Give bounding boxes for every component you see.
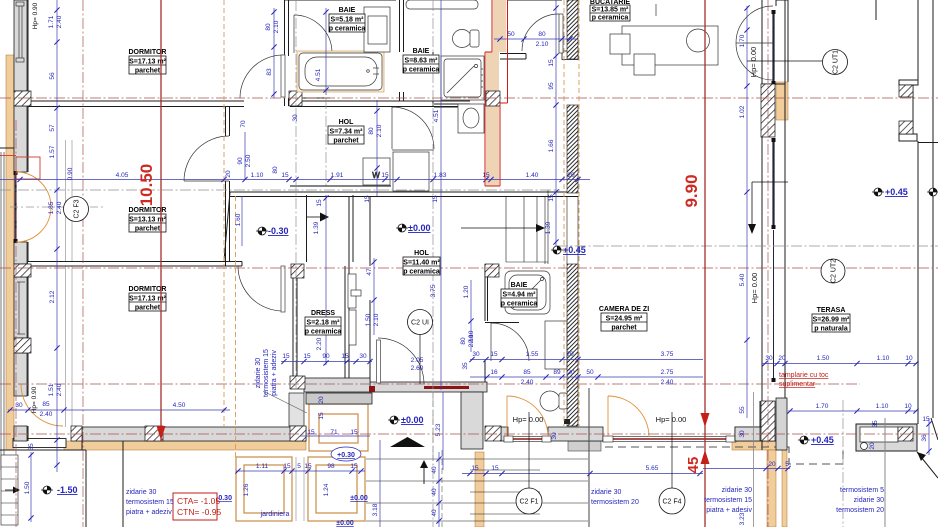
level marker +0.45 bottom right <box>798 435 834 445</box>
svg-text:2.05: 2.05 <box>411 357 424 364</box>
svg-text:piatra + adeziv: piatra + adeziv <box>126 509 172 516</box>
svg-text:4.51: 4.51 <box>315 68 322 81</box>
interior door arc bed1 <box>240 55 285 98</box>
toilet baie4.94 <box>540 391 567 411</box>
svg-text:4.50: 4.50 <box>173 402 186 409</box>
dim camera y377 <box>470 369 703 386</box>
svg-text:tamplarie cu toc: tamplarie cu toc <box>779 372 829 379</box>
svg-text:1.02: 1.02 <box>739 105 746 118</box>
dim wall right y468 <box>703 461 791 471</box>
exterior stair arrow bottom-left <box>5 487 20 494</box>
gray plinth under wall <box>568 441 601 451</box>
left wall window glazing bed3 <box>17 282 25 334</box>
svg-text:±0.00: ±0.00 <box>350 495 368 502</box>
bathtub baie5.18 <box>299 53 382 90</box>
bottom wall window 2 frame <box>603 436 736 442</box>
red wall tan fill lower <box>486 52 499 186</box>
level +0.30 planter <box>331 447 361 461</box>
left wall window glazing bed1 <box>16 2 24 62</box>
svg-text:C2 UT2: C2 UT2 <box>831 259 838 283</box>
svg-text:2.40: 2.40 <box>40 411 53 418</box>
planter jardiniera middle <box>308 457 365 521</box>
wall bed2 east vertical <box>226 106 230 266</box>
svg-text:20: 20 <box>768 461 776 468</box>
gray line corner <box>753 392 755 527</box>
svg-text:-1.50: -1.50 <box>57 485 78 495</box>
bottom-right wall corner L <box>735 401 785 450</box>
svg-text:p ceramica: p ceramica <box>501 301 538 308</box>
terrace steps up arrow <box>420 460 428 484</box>
svg-text:1.70: 1.70 <box>739 34 746 47</box>
svg-text:35: 35 <box>28 443 35 451</box>
hatch block dress south <box>290 376 305 389</box>
svg-text:BAIE: BAIE <box>339 7 356 14</box>
svg-text:+0.45: +0.45 <box>885 187 908 197</box>
dim hol x245 <box>237 132 279 179</box>
svg-text:1.66: 1.66 <box>548 139 555 152</box>
svg-text:15: 15 <box>281 172 289 179</box>
exterior door bed3 <box>21 384 63 426</box>
svg-text:30: 30 <box>15 402 23 409</box>
room label HOL 11.40 <box>403 250 440 276</box>
hatch block kitchen-east column <box>761 84 775 137</box>
hatch block camera west <box>485 426 501 441</box>
courtyard dashed axis <box>432 392 434 465</box>
svg-text:termosistem 20: termosistem 20 <box>591 499 639 506</box>
level marker -1.50 <box>41 485 78 495</box>
svg-text:1.57: 1.57 <box>49 145 56 158</box>
dim camera south y473 <box>462 465 703 476</box>
svg-text:2.10: 2.10 <box>468 330 475 343</box>
interior door arc baie5.18 <box>294 15 332 53</box>
svg-text:1.50: 1.50 <box>24 481 31 494</box>
toilet baie8.63 <box>453 30 480 48</box>
washing machine baie5.18 <box>364 7 390 52</box>
svg-text:15: 15 <box>316 199 323 207</box>
dim vertical x747 <box>739 5 750 525</box>
callout circle C2 F3 <box>64 197 89 222</box>
svg-text:2.40: 2.40 <box>56 201 63 214</box>
wall insulation strip left <box>6 55 14 450</box>
svg-text:3.75: 3.75 <box>430 284 437 297</box>
corridor wall east of red wall <box>500 54 526 60</box>
svg-text:98: 98 <box>327 463 335 470</box>
svg-text:30: 30 <box>551 432 558 440</box>
hatch block bottom-left b <box>145 426 163 441</box>
svg-text:70: 70 <box>240 120 247 128</box>
svg-text:20: 20 <box>318 396 325 404</box>
red arrow 45 <box>701 413 710 427</box>
planter jardiniera upper <box>309 404 368 451</box>
svg-text:56: 56 <box>49 72 56 80</box>
dim hol x374 <box>365 258 380 335</box>
svg-text:piatra + adeziv: piatra + adeziv <box>271 350 278 396</box>
exterior window arc 1 <box>507 396 548 437</box>
svg-text:5: 5 <box>785 461 789 468</box>
dim left 1.50 bottom <box>24 443 35 522</box>
svg-text:2.12: 2.12 <box>49 290 56 303</box>
glazing line east wall lower <box>772 138 776 382</box>
dim tub line x326 <box>323 8 328 95</box>
red wall tan fill upper <box>493 0 506 52</box>
wall bed1 east / baie5.18 west vertical <box>285 0 289 106</box>
terrace corner arrowhead <box>917 452 926 461</box>
svg-text:suplimentar: suplimentar <box>779 381 816 388</box>
svg-text:5.40: 5.40 <box>739 273 746 286</box>
svg-text:15: 15 <box>364 195 371 203</box>
dim vertical x441 <box>433 0 441 390</box>
shower baie8.63 <box>441 56 484 100</box>
svg-text:HOL: HOL <box>339 119 355 126</box>
svg-text:3.23: 3.23 <box>739 512 746 525</box>
axis F horizontal <box>0 433 938 435</box>
bathtub baie5.18 surround <box>297 51 384 92</box>
room label BAIE 4.94 <box>501 282 538 308</box>
svg-text:2.40: 2.40 <box>521 379 534 386</box>
red note tamplarie <box>779 372 829 388</box>
room label BUCATARIE <box>590 0 631 22</box>
callout circle C2 UT1 <box>747 50 848 75</box>
wall stub top right <box>875 0 877 20</box>
svg-text:parchet: parchet <box>135 305 161 312</box>
right wall step plates <box>899 80 918 141</box>
svg-text:1.60: 1.60 <box>235 213 242 226</box>
axis V7 vertical gray <box>842 400 844 527</box>
room label DORMITOR 17.13 <box>129 49 167 75</box>
note zidarie bottom-left <box>126 489 174 516</box>
wardrobe dress <box>348 274 361 345</box>
wall hol7.34 south / stairs north <box>224 192 580 261</box>
exterior french door bed2 leaf2 <box>16 207 51 242</box>
svg-text:1.50: 1.50 <box>817 355 830 362</box>
svg-text:Hp= 0.00: Hp= 0.00 <box>513 415 544 424</box>
svg-text:C2 F1: C2 F1 <box>519 499 538 506</box>
wall insulation strip bottom east <box>732 441 785 450</box>
gray line terrace <box>884 418 886 527</box>
stair treads flight B <box>506 190 548 264</box>
note zidarie rotated dress <box>255 349 278 397</box>
svg-text:2.10: 2.10 <box>536 41 549 48</box>
axis V3 vertical <box>295 0 297 389</box>
svg-text:1.55: 1.55 <box>526 351 539 358</box>
svg-text:95: 95 <box>548 82 555 90</box>
svg-text:2.40: 2.40 <box>661 379 674 386</box>
callout circle C2 UT2 <box>821 259 845 283</box>
hatch block terrace pillar <box>898 427 913 441</box>
svg-text:p ceramica: p ceramica <box>403 269 440 276</box>
dim door hol11 <box>411 357 469 372</box>
note zidarie bottom-center <box>591 489 639 506</box>
axis D horizontal <box>0 267 938 269</box>
svg-text:83: 83 <box>266 68 273 76</box>
insulation band wall segment 1 <box>567 0 578 59</box>
hatch block baie5.18 <box>289 91 302 106</box>
svg-text:Hp= 0.00: Hp= 0.00 <box>656 415 687 424</box>
svg-text:S=24.95 m²: S=24.95 m² <box>606 316 643 323</box>
svg-text:CAMERA DE ZI: CAMERA DE ZI <box>599 306 649 313</box>
bottom-left wall return vertical <box>0 427 123 527</box>
svg-text:C2 UI: C2 UI <box>411 320 429 327</box>
red arrow 45 up <box>701 450 710 464</box>
bottom wall window 1 frame <box>504 436 551 442</box>
svg-text:45: 45 <box>685 457 702 474</box>
svg-text:p ceramica: p ceramica <box>329 26 366 33</box>
level marker +0.45 camera <box>551 245 586 255</box>
red arrow 10.50 <box>157 426 166 440</box>
svg-text:1.24: 1.24 <box>323 483 330 496</box>
red wall line right upper <box>500 0 508 186</box>
svg-text:3.75: 3.75 <box>661 351 674 358</box>
svg-text:1.20: 1.20 <box>463 285 470 298</box>
cabinet hol wall <box>393 152 429 191</box>
svg-text:p ceramica: p ceramica <box>403 67 440 74</box>
svg-text:1.91: 1.91 <box>331 172 344 179</box>
dim steps x380 <box>372 440 380 527</box>
svg-text:4.51: 4.51 <box>433 109 440 122</box>
svg-text:30: 30 <box>765 355 773 362</box>
svg-text:36: 36 <box>921 434 928 442</box>
svg-text:71: 71 <box>330 429 338 436</box>
red wall line left upper <box>485 0 500 186</box>
axis C horizontal <box>557 245 938 247</box>
svg-text:40: 40 <box>431 466 438 474</box>
hatch block bottom-right corner <box>761 401 775 441</box>
svg-text:2.40: 2.40 <box>56 15 63 28</box>
svg-text:1.10: 1.10 <box>251 172 264 179</box>
callout circle C2 F4 <box>659 412 685 514</box>
hatch block right wall step lower <box>899 121 913 134</box>
hatch block red wall <box>486 91 500 106</box>
hatch block left wall B <box>14 264 31 277</box>
svg-text:50: 50 <box>586 369 594 376</box>
level marker +-0.00 hol <box>396 223 430 233</box>
svg-text:47: 47 <box>366 268 373 276</box>
dim vertical x556 <box>545 0 559 246</box>
dim vertical x57 <box>48 0 63 472</box>
svg-text:2.20: 2.20 <box>316 337 323 350</box>
svg-text:85: 85 <box>42 401 50 408</box>
column tan block kitchen-east <box>776 82 788 120</box>
svg-text:S=4.94 m²: S=4.94 m² <box>503 292 537 299</box>
svg-text:1.10: 1.10 <box>877 355 890 362</box>
svg-text:80: 80 <box>272 166 279 174</box>
courtyard pillar <box>461 392 483 449</box>
svg-text:15: 15 <box>548 59 555 67</box>
level marker -0.30 <box>256 226 289 236</box>
svg-text:C2 F3: C2 F3 <box>74 199 81 218</box>
wall insulation strip bottom-left vertical <box>475 452 484 527</box>
dim chain horizontal y179 <box>0 167 590 182</box>
door axis dashed bed2 <box>10 206 105 208</box>
axis A horizontal <box>0 97 938 99</box>
wall dress east vertical <box>345 196 349 378</box>
svg-text:1.26: 1.26 <box>243 483 250 496</box>
hatch block bottom middle <box>290 426 306 441</box>
svg-text:2.10: 2.10 <box>273 20 280 33</box>
svg-text:S=7.34 m²: S=7.34 m² <box>330 129 364 136</box>
svg-text:30: 30 <box>292 114 299 122</box>
svg-text:termosistem 15: termosistem 15 <box>126 499 174 506</box>
interior door corridor-kitchen <box>522 14 563 53</box>
callout circle C2 UI <box>408 310 433 385</box>
svg-text:9.90: 9.90 <box>682 174 701 207</box>
svg-text:BAIE: BAIE <box>511 282 528 289</box>
vanity baie8.63 <box>458 104 484 133</box>
svg-text:15: 15 <box>482 172 490 179</box>
room label BAIE 5.18 <box>329 7 366 33</box>
hol south sill line <box>290 185 391 187</box>
svg-text:15: 15 <box>318 412 325 420</box>
svg-text:15: 15 <box>341 353 349 360</box>
svg-text:1.70: 1.70 <box>816 403 829 410</box>
svg-text:15: 15 <box>350 463 358 470</box>
svg-text:10.50: 10.50 <box>137 164 156 207</box>
wall baie5.18 south <box>289 98 330 101</box>
dim steps x439 <box>431 452 442 527</box>
north arrow solid <box>390 437 425 447</box>
hatch block left wall A <box>14 91 31 106</box>
svg-text:p naturala: p naturala <box>814 326 848 333</box>
axis V2 vertical <box>82 0 84 527</box>
svg-text:89: 89 <box>553 369 561 376</box>
svg-text:Hp= 0.00: Hp= 0.00 <box>749 47 758 78</box>
red axis line 10.50 <box>160 0 162 441</box>
svg-text:16: 16 <box>490 369 498 376</box>
terrace pillar bench <box>856 424 917 451</box>
walkway lines between planters <box>296 457 304 521</box>
terrace dashed edge <box>605 447 843 464</box>
svg-text:Hp= 0.90: Hp= 0.90 <box>31 386 38 413</box>
svg-text:±0.00: ±0.00 <box>401 415 423 425</box>
dim pillar x929 <box>921 416 932 455</box>
svg-text:C2 F4: C2 F4 <box>662 499 681 506</box>
camera de zi west wall vertical <box>588 388 590 527</box>
svg-text:20: 20 <box>225 170 232 178</box>
svg-text:parchet: parchet <box>135 226 161 233</box>
gray wall piece <box>501 427 508 441</box>
dim hol x377 <box>368 100 383 196</box>
arrow vertical terasa wall <box>748 182 788 234</box>
svg-text:30: 30 <box>359 353 367 360</box>
axis V1 vertical <box>15 120 17 527</box>
orange dashed facade line 2 <box>563 0 565 426</box>
dim hol11 vertical x436 <box>430 284 437 297</box>
washer W hol <box>363 158 390 185</box>
room label TERASA <box>812 307 850 333</box>
wall insulation strip bottom-right vertical <box>767 450 776 527</box>
hatch block left wall C <box>14 338 31 353</box>
svg-text:15: 15 <box>548 194 555 202</box>
svg-text:15: 15 <box>381 172 389 179</box>
svg-text:TERASA: TERASA <box>817 307 846 314</box>
terrace steps lines <box>366 459 588 521</box>
wall baie5.18 / baie8.63 vertical <box>400 0 404 101</box>
cabinet camera de zi <box>545 321 567 369</box>
svg-text:50: 50 <box>507 31 515 38</box>
svg-text:CTA= -1.05: CTA= -1.05 <box>177 496 220 506</box>
svg-text:zidarie 30: zidarie 30 <box>126 489 156 496</box>
exterior window arc 2 <box>608 396 649 437</box>
axis V4b vertical <box>325 98 327 186</box>
svg-text:15: 15 <box>282 353 290 360</box>
svg-text:S=2.18 m²: S=2.18 m² <box>307 320 341 327</box>
wall bed2/bed3 horizontal <box>28 262 242 267</box>
svg-text:0.90: 0.90 <box>67 167 74 180</box>
svg-text:15: 15 <box>490 351 498 358</box>
red lintel detail bed2 <box>0 156 40 180</box>
svg-text:BAIE: BAIE <box>413 48 430 55</box>
svg-text:1.50: 1.50 <box>365 313 372 326</box>
dim dress y361 <box>281 353 373 364</box>
svg-text:jardiniera: jardiniera <box>260 511 290 518</box>
svg-text:zidarie 30: zidarie 30 <box>255 358 262 388</box>
svg-text:Hp= 0.90: Hp= 0.90 <box>32 2 39 29</box>
svg-text:S=5.18 m²: S=5.18 m² <box>331 17 365 24</box>
callout circle C2 F1 <box>516 412 542 514</box>
note leader line <box>263 391 307 413</box>
wall dress south gray <box>304 378 370 392</box>
room label DORMITOR 13.13 <box>129 207 167 233</box>
balcony rail left <box>1 152 4 470</box>
svg-text:p ceramica: p ceramica <box>592 15 629 22</box>
red axis line 9.90 <box>704 0 706 527</box>
svg-text:W: W <box>372 171 380 180</box>
svg-text:15: 15 <box>350 429 358 436</box>
svg-text:1.85: 1.85 <box>48 201 55 214</box>
left exterior wall gray band <box>14 0 27 441</box>
dim bottom-left y410 <box>7 401 230 418</box>
svg-text:20: 20 <box>778 355 786 362</box>
sill block <box>564 419 570 424</box>
svg-text:80: 80 <box>368 127 375 135</box>
terrace corner diagonal <box>917 418 938 478</box>
wall baie4.94 north <box>485 322 519 324</box>
svg-text:15: 15 <box>432 195 439 203</box>
bathtub baie8.63 top <box>406 0 478 9</box>
hatch block bottom-left <box>71 426 82 441</box>
svg-text:1.39: 1.39 <box>313 221 320 234</box>
svg-text:90: 90 <box>237 157 244 165</box>
svg-text:55: 55 <box>739 406 746 414</box>
svg-text:zidarie 30: zidarie 30 <box>722 487 752 494</box>
svg-text:p ceramica: p ceramica <box>305 329 342 336</box>
wall insulation strip bottom-right vertical b <box>782 450 787 527</box>
svg-text:80: 80 <box>460 337 467 345</box>
door sill courtyard <box>424 386 469 389</box>
svg-text:2.40: 2.40 <box>56 383 63 396</box>
wall bed1/bed2 horizontal <box>28 101 470 107</box>
door sill dress exit <box>369 386 375 392</box>
gray strip corner <box>776 398 787 450</box>
svg-text:15: 15 <box>303 353 311 360</box>
dim planter top y436 <box>300 429 370 436</box>
svg-text:S=11.40 m²: S=11.40 m² <box>403 260 440 267</box>
svg-text:5.23: 5.23 <box>435 423 442 436</box>
left wall inner face line <box>0 0 28 441</box>
dim door kitchen y39 <box>494 31 578 48</box>
svg-text:parchet: parchet <box>333 138 359 145</box>
svg-text:parchet: parchet <box>611 325 637 332</box>
svg-text:30: 30 <box>739 430 746 438</box>
axis V6 vertical <box>767 0 769 527</box>
svg-text:1.40: 1.40 <box>526 172 539 179</box>
svg-text:S=8.63 m²: S=8.63 m² <box>405 58 439 65</box>
svg-text:±0.00: ±0.00 <box>408 223 430 233</box>
room label BAIE 8.63 <box>403 48 440 74</box>
svg-text:zidarie 30: zidarie 30 <box>854 497 884 504</box>
svg-text:15: 15 <box>471 465 479 472</box>
room label CAMERA DE ZI <box>599 306 649 332</box>
